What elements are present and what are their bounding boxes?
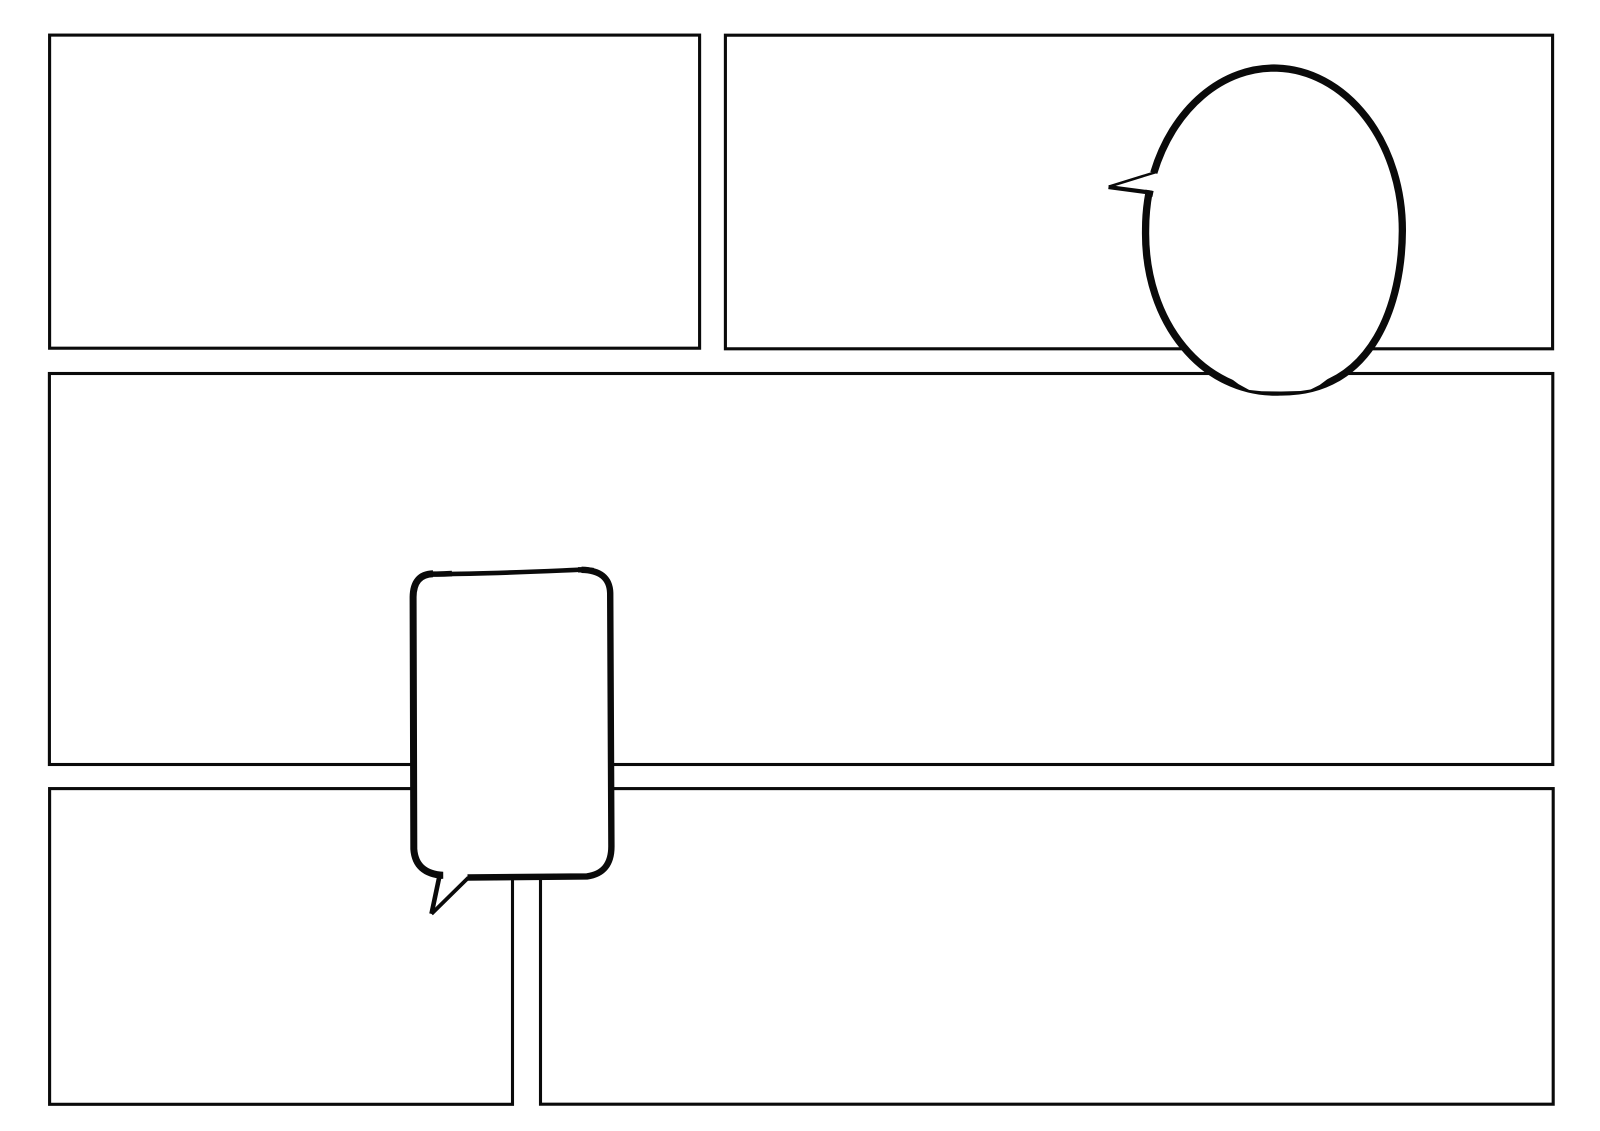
speech bubble B1: tail upper edge xyxy=(1109,172,1156,187)
panel 1 (top-left) xyxy=(50,35,700,348)
speech bubble B2: outline left edge + corners (thick stroke) xyxy=(413,574,443,876)
panel 3 (middle full-width) xyxy=(49,374,1552,765)
speech bubble B2: top-left corner taper segment xyxy=(430,571,452,577)
panel 2 (top-right) xyxy=(725,35,1552,349)
speech bubble B2: tail right edge xyxy=(432,878,469,914)
speech bubble B1: white fill (ellipse body + tail, top-right panel) xyxy=(1109,68,1402,392)
speech bubble B2: top-right corner taper segment xyxy=(578,567,594,573)
panel 5 (bottom-right) xyxy=(541,789,1554,1105)
speech bubble B1: tail lower edge xyxy=(1109,187,1152,193)
speech bubble B1: ellipse outline arc (gap at tail notch) xyxy=(1146,68,1403,392)
speech bubble B1: tail-to-outline lower junction patch xyxy=(1146,190,1154,197)
speech bubble B2: tail left edge xyxy=(432,874,441,914)
speech bubble B2: outline right edge + bottom edge xyxy=(468,570,612,878)
speech bubble B2: outline top edge (thin stroke) xyxy=(434,570,584,574)
speech bubble B1: interior white trim along bottom of ellipse xyxy=(1234,377,1326,389)
speech bubble B2: white fill (rounded-rect body + tail, middle panel) xyxy=(413,570,611,914)
panel 4 (bottom-left) xyxy=(50,789,513,1105)
